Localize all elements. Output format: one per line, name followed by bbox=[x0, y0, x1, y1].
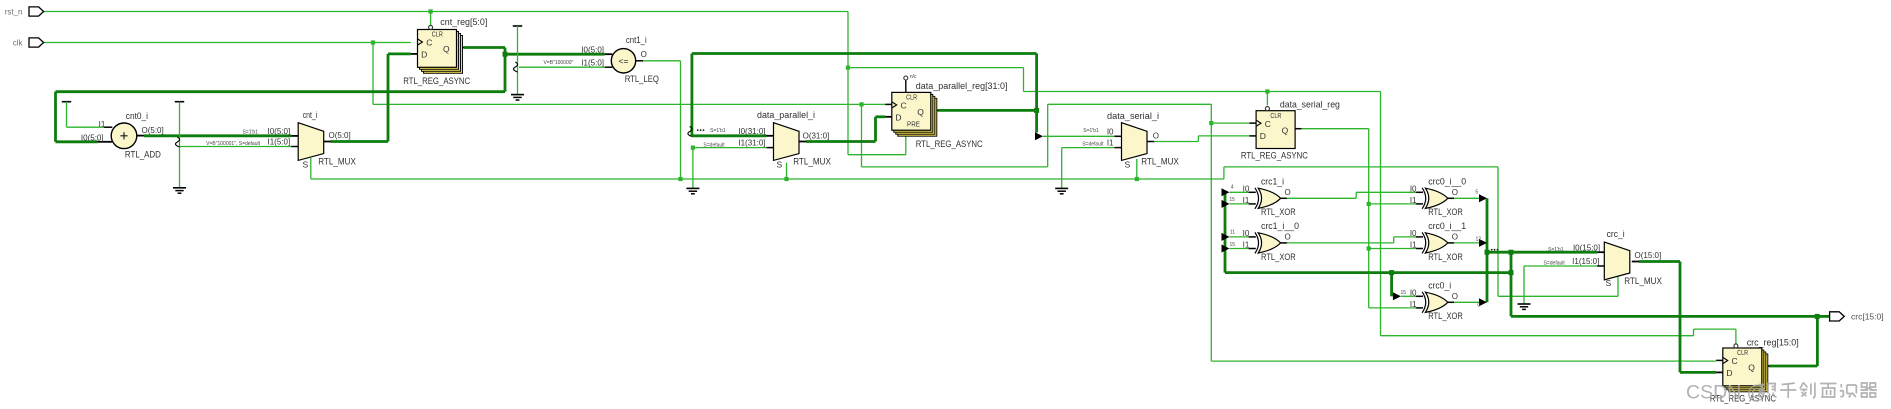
output port crc[15:0] bbox=[1830, 312, 1884, 322]
svg-text:crc0_i__0: crc0_i__0 bbox=[1428, 176, 1466, 186]
svg-text:RTL_MUX: RTL_MUX bbox=[1624, 276, 1662, 287]
comparator cnt1_i RTL_LEQ bbox=[543, 35, 658, 85]
register data_serial_reg RTL_REG_ASYNC bbox=[1241, 99, 1340, 161]
mux crc_i RTL_MUX bbox=[1544, 229, 1663, 288]
svg-text:D: D bbox=[1726, 368, 1732, 378]
svg-text:S=default: S=default bbox=[703, 142, 725, 148]
svg-text:C: C bbox=[426, 38, 432, 48]
svg-text:S=1'b1: S=1'b1 bbox=[710, 128, 726, 134]
svg-text:S=1'b1: S=1'b1 bbox=[1548, 247, 1564, 253]
svg-text:rst_n: rst_n bbox=[5, 8, 23, 17]
svg-text:I1: I1 bbox=[1410, 300, 1417, 309]
wire net select from cnt1_i O bbox=[311, 61, 1618, 296]
svg-text:15: 15 bbox=[1229, 197, 1235, 203]
wire net data_serial_reg Q bbox=[1301, 129, 1416, 308]
svg-text:<=: <= bbox=[619, 56, 629, 66]
xor gate crc1_i RTL_XOR bbox=[1229, 176, 1295, 218]
mux data_parallel_i RTL_MUX bbox=[703, 110, 831, 170]
svg-text:I0: I0 bbox=[1410, 229, 1417, 238]
svg-text:S: S bbox=[1125, 160, 1131, 170]
register cnt_reg RTL_REG_ASYNC bbox=[403, 17, 487, 87]
svg-text:S=1'b1: S=1'b1 bbox=[1083, 128, 1099, 134]
wire net rst_n bbox=[44, 9, 1736, 343]
svg-text:I1(31:0]: I1(31:0] bbox=[738, 139, 765, 148]
svg-text:O: O bbox=[1153, 131, 1159, 140]
svg-text:I0(5:0]: I0(5:0] bbox=[81, 133, 104, 142]
svg-text:cnt_reg[5:0]: cnt_reg[5:0] bbox=[440, 17, 487, 28]
svg-text:I1: I1 bbox=[99, 120, 106, 129]
svg-text:0: 0 bbox=[1477, 302, 1480, 308]
svg-text:crc_i: crc_i bbox=[1607, 229, 1625, 239]
svg-text:O(15:0]: O(15:0] bbox=[1635, 251, 1662, 260]
svg-text:crc1_i__0: crc1_i__0 bbox=[1261, 221, 1299, 231]
svg-text:RTL_MUX: RTL_MUX bbox=[318, 157, 356, 168]
svg-text:crc0_i: crc0_i bbox=[1428, 280, 1451, 290]
svg-text:CLR: CLR bbox=[906, 95, 917, 102]
svg-text:RTL_XOR: RTL_XOR bbox=[1428, 311, 1463, 322]
svg-text:12: 12 bbox=[1475, 236, 1481, 242]
wire data_serial_i I1 gnd bbox=[1055, 148, 1114, 194]
wire cnt_i I1 const V=B"100001" bbox=[173, 102, 291, 194]
svg-text:CLR: CLR bbox=[1270, 113, 1281, 120]
wire crc_i O to crc_reg D bbox=[1639, 262, 1716, 373]
svg-text:O: O bbox=[1285, 232, 1291, 241]
svg-text:PRE: PRE bbox=[907, 121, 920, 128]
svg-text:I0: I0 bbox=[1107, 127, 1114, 136]
svg-text:crc0_i__1: crc0_i__1 bbox=[1428, 221, 1466, 231]
svg-text:O: O bbox=[1452, 188, 1458, 197]
wire data_serial_i O to data_serial_reg D bbox=[1154, 136, 1250, 142]
svg-text:RTL_XOR: RTL_XOR bbox=[1261, 252, 1296, 263]
svg-text:C: C bbox=[1265, 119, 1271, 129]
svg-text:crc_reg[15:0]: crc_reg[15:0] bbox=[1747, 338, 1799, 349]
svg-text:S: S bbox=[303, 160, 309, 170]
wire net cnt_reg[5:0] bus bbox=[56, 48, 605, 142]
svg-text:D: D bbox=[1260, 131, 1266, 141]
svg-text:S=1'b1: S=1'b1 bbox=[242, 129, 258, 135]
svg-text:I1: I1 bbox=[1410, 241, 1417, 250]
svg-text:I1: I1 bbox=[1107, 139, 1114, 148]
svg-text:n/c: n/c bbox=[910, 74, 917, 80]
svg-text:O: O bbox=[641, 50, 647, 59]
xor gate crc0_i__0 RTL_XOR bbox=[1410, 176, 1479, 218]
svg-text:15: 15 bbox=[1401, 290, 1407, 296]
svg-text:S: S bbox=[1606, 278, 1612, 288]
svg-text:D: D bbox=[895, 113, 901, 123]
svg-text:crc[15:0]: crc[15:0] bbox=[1851, 312, 1884, 322]
wire crc bus bit taps to XOR inputs bbox=[1222, 188, 1416, 300]
mux cnt_i RTL_MUX bbox=[206, 110, 356, 170]
wire net crc_reg[15:0] bus bbox=[1225, 192, 1830, 366]
svg-text:RTL_MUX: RTL_MUX bbox=[793, 157, 831, 168]
svg-text:RTL_XOR: RTL_XOR bbox=[1428, 207, 1463, 218]
wire data_parallel bit to data_serial_i I0 bbox=[1035, 132, 1115, 140]
svg-text:RTL_XOR: RTL_XOR bbox=[1261, 207, 1296, 218]
register data_parallel_reg RTL_REG_ASYNC bbox=[885, 74, 1007, 150]
svg-text:cnt0_i: cnt0_i bbox=[126, 111, 148, 121]
svg-text:data_parallel_i: data_parallel_i bbox=[757, 110, 815, 120]
input port clk bbox=[13, 38, 44, 48]
svg-text:CLR: CLR bbox=[1737, 350, 1748, 357]
wire cnt1_i I1 const V=B"100000" bbox=[511, 26, 605, 100]
svg-text:CSDN @: CSDN @ bbox=[1686, 381, 1766, 403]
xor gate crc0_i RTL_XOR bbox=[1401, 280, 1481, 322]
xor gate crc1_i__0 RTL_XOR bbox=[1229, 221, 1299, 263]
wire net clk bbox=[44, 40, 1717, 361]
watermark CSDN bbox=[1686, 381, 1877, 403]
svg-text:Q: Q bbox=[917, 107, 924, 117]
wire cnt0_i O to cnt_i I0 bbox=[144, 134, 291, 137]
svg-text:cnt1_i: cnt1_i bbox=[626, 35, 647, 45]
svg-text:data_parallel_reg[31:0]: data_parallel_reg[31:0] bbox=[916, 81, 1008, 92]
svg-text:Q: Q bbox=[1282, 125, 1289, 135]
svg-text:crc1_i: crc1_i bbox=[1261, 176, 1284, 186]
wire crc1_i O to crc0_i__0 I0 bbox=[1287, 192, 1416, 198]
svg-text:RTL_REG_ASYNC: RTL_REG_ASYNC bbox=[403, 76, 470, 87]
svg-text:V=B"100000": V=B"100000" bbox=[543, 60, 573, 66]
svg-text:C: C bbox=[901, 101, 907, 111]
svg-text:I0: I0 bbox=[1410, 288, 1417, 297]
wire data_parallel_i O to data_parallel_reg D bbox=[806, 117, 885, 142]
mux data_serial_i RTL_MUX bbox=[1082, 111, 1179, 169]
input port rst_n bbox=[5, 7, 44, 17]
svg-text:data_serial_reg: data_serial_reg bbox=[1280, 99, 1340, 110]
svg-text:I0: I0 bbox=[1243, 229, 1250, 238]
svg-text:S: S bbox=[777, 160, 783, 170]
svg-text:S=default: S=default bbox=[1544, 261, 1566, 267]
svg-text:O: O bbox=[1452, 292, 1458, 301]
svg-text:S=default: S=default bbox=[1082, 141, 1104, 147]
svg-text:C: C bbox=[1732, 356, 1738, 366]
svg-text:O(5:0]: O(5:0] bbox=[142, 126, 164, 135]
svg-text:I1(5:0]: I1(5:0] bbox=[268, 138, 291, 147]
svg-text:I1(5:0]: I1(5:0] bbox=[581, 58, 604, 67]
svg-text:V=B"100001", S=default: V=B"100001", S=default bbox=[206, 141, 260, 147]
svg-text:RTL_XOR: RTL_XOR bbox=[1428, 252, 1463, 263]
svg-text:data_serial_i: data_serial_i bbox=[1107, 111, 1159, 121]
svg-text:5: 5 bbox=[1475, 190, 1478, 196]
svg-text:Q: Q bbox=[1748, 363, 1755, 373]
svg-text:I0(5:0]: I0(5:0] bbox=[268, 127, 291, 136]
svg-text:I0: I0 bbox=[1243, 184, 1250, 193]
svg-text:I1(15:0]: I1(15:0] bbox=[1572, 257, 1599, 266]
svg-text:I0: I0 bbox=[1410, 184, 1417, 193]
wire crc next-value assembly bbox=[1454, 194, 1597, 306]
wire crc1_i__0 O to crc0_i__1 I0 bbox=[1287, 237, 1416, 243]
svg-text:I1: I1 bbox=[1410, 196, 1417, 205]
svg-text:I0(31:0]: I0(31:0] bbox=[738, 127, 765, 136]
wire cnt0_i I1 const bbox=[62, 102, 104, 128]
svg-text:O(31:0]: O(31:0] bbox=[803, 132, 830, 141]
svg-text:RTL_ADD: RTL_ADD bbox=[125, 150, 161, 161]
svg-text:RTL_LEQ: RTL_LEQ bbox=[625, 74, 659, 85]
svg-text:CLR: CLR bbox=[432, 32, 443, 39]
wire crc_i I1 gnd bbox=[1518, 266, 1598, 309]
svg-text:I0(5:0]: I0(5:0] bbox=[581, 45, 604, 54]
svg-text:11: 11 bbox=[1230, 229, 1235, 235]
svg-text:I1: I1 bbox=[1243, 196, 1250, 205]
svg-text:RTL_REG_ASYNC: RTL_REG_ASYNC bbox=[916, 139, 983, 150]
register crc_reg RTL_REG_ASYNC bbox=[1710, 338, 1799, 405]
wire cnt_i O to cnt_reg D bbox=[331, 54, 411, 142]
svg-text:cnt_i: cnt_i bbox=[303, 110, 318, 120]
wire net data_parallel_reg[31:0] bus bbox=[688, 54, 1039, 137]
adder cnt0_i RTL_ADD bbox=[81, 111, 164, 161]
svg-text:O(5:0]: O(5:0] bbox=[329, 131, 351, 140]
svg-text:4: 4 bbox=[1231, 185, 1234, 191]
svg-text:RTL_MUX: RTL_MUX bbox=[1141, 157, 1179, 168]
svg-text:clk: clk bbox=[13, 39, 24, 48]
svg-text:O: O bbox=[1452, 232, 1458, 241]
svg-text:I0(15:0]: I0(15:0] bbox=[1573, 243, 1600, 252]
wire data_parallel_i I1 gnd bbox=[686, 146, 766, 194]
svg-text:RTL_REG_ASYNC: RTL_REG_ASYNC bbox=[1241, 150, 1308, 161]
svg-text:D: D bbox=[421, 50, 427, 60]
svg-text:Q: Q bbox=[443, 44, 450, 54]
xor gate crc0_i__1 RTL_XOR bbox=[1410, 221, 1481, 263]
svg-text:I1: I1 bbox=[1243, 241, 1250, 250]
svg-text:15: 15 bbox=[1229, 242, 1235, 248]
svg-text:O: O bbox=[1285, 188, 1291, 197]
